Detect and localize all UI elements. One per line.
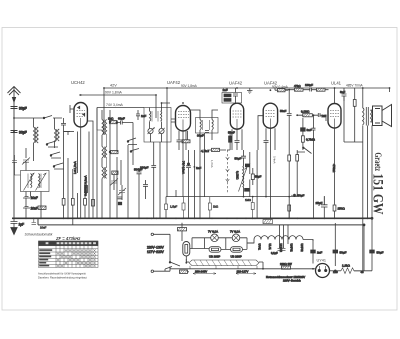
svg-text:150Ω: 150Ω bbox=[338, 207, 346, 211]
wire osc grid row bbox=[97, 108, 102, 131]
resistor 1M AVC bbox=[38, 206, 46, 209]
resistor 1M dark bbox=[229, 136, 232, 142]
coil L3 inside box bbox=[31, 174, 32, 188]
switch S1a bbox=[44, 116, 62, 119]
switch S1d bbox=[53, 163, 64, 169]
svg-text:8nF: 8nF bbox=[340, 90, 345, 94]
capacitor osc lower bbox=[118, 197, 123, 199]
node HT drop at x167 bbox=[166, 88, 168, 197]
coil IF1b bbox=[161, 111, 162, 121]
svg-text:30pF: 30pF bbox=[19, 107, 27, 111]
coil IF2a bbox=[200, 120, 201, 130]
trimmer IF1a bbox=[148, 128, 153, 133]
svg-text:UAF42: UAF42 bbox=[289, 244, 293, 253]
wire grid to tube bbox=[64, 131, 75, 133]
svg-text:50µF: 50µF bbox=[340, 250, 347, 254]
resistor 0,5M grid UL41 bbox=[302, 136, 305, 142]
svg-text:UCH42: UCH42 bbox=[279, 244, 283, 253]
mains range line bbox=[170, 267, 263, 269]
capacitor 1uF AVC bus bbox=[11, 218, 25, 234]
svg-text:47kΩ: 47kΩ bbox=[294, 84, 301, 88]
arrow variable core left bbox=[24, 173, 35, 190]
wire L1 bottom to gang bbox=[34, 141, 55, 161]
svg-text:7V 0,1A: 7V 0,1A bbox=[230, 230, 240, 234]
coil L5 oscillator bbox=[102, 120, 104, 135]
capacitor 50pF tube3 bbox=[235, 141, 240, 151]
svg-text:30pF: 30pF bbox=[197, 134, 204, 138]
capacitor 50pF grid bbox=[61, 118, 66, 147]
svg-text:10nF: 10nF bbox=[40, 226, 47, 230]
svg-text:0,1MΩ: 0,1MΩ bbox=[236, 171, 240, 179]
wire osc verticals bbox=[110, 110, 117, 218]
svg-text:220V~Bereich: 220V~Bereich bbox=[283, 279, 301, 283]
fuse resistor 1 bbox=[209, 247, 221, 253]
wire chassis bus lower bbox=[38, 218, 364, 225]
capacitor coupling 10nF bbox=[264, 141, 269, 197]
capacitor 30pF antenna top bbox=[11, 107, 27, 111]
wire dropper taps bbox=[186, 262, 263, 269]
resistor UL41 cathode bbox=[288, 205, 291, 211]
svg-text:120: 120 bbox=[333, 270, 338, 274]
tube UAF42 first bbox=[176, 106, 191, 132]
resistor AVC c bbox=[84, 199, 87, 206]
SECTION:AF bbox=[165, 83, 373, 218]
resistor 150R cathode bbox=[333, 205, 336, 211]
resistor 220R small bbox=[282, 266, 291, 269]
wire second UAF42 pins bbox=[266, 128, 275, 218]
capacitor 2nF psu bbox=[311, 250, 316, 253]
wire 74V line bbox=[97, 107, 144, 109]
capacitor 1nF at bus left bbox=[32, 218, 47, 229]
capacitor 50uF reservoir bbox=[333, 250, 338, 253]
wire af node column bbox=[250, 150, 257, 218]
svg-text:74V 3,4mA: 74V 3,4mA bbox=[106, 103, 124, 107]
dial lamp 2 bbox=[232, 234, 240, 242]
capacitor 8nF coupling bbox=[301, 128, 306, 131]
svg-text:1,2kΩ: 1,2kΩ bbox=[342, 264, 351, 268]
capacitor padding left bbox=[12, 155, 17, 170]
wire frontend verticals to bus bbox=[63, 147, 65, 218]
resistor 47k osc bbox=[111, 151, 119, 154]
svg-text:1nF: 1nF bbox=[223, 88, 228, 92]
wire mains verticals bbox=[169, 234, 171, 271]
junction dot g1 bbox=[294, 194, 296, 196]
svg-text:10nF: 10nF bbox=[31, 207, 38, 211]
svg-text:Daneben: Raumladeverbindung ei: Daneben: Raumladeverbindung eingebaut bbox=[38, 275, 87, 279]
svg-text:0,4mA: 0,4mA bbox=[273, 156, 277, 164]
wiper arrow volume bbox=[239, 167, 247, 191]
wire heater taps from bus bbox=[271, 225, 288, 255]
coil L6 oscillator bbox=[102, 147, 104, 158]
capacitor 500pF bbox=[137, 168, 142, 178]
svg-text:ZF = 473kHz: ZF = 473kHz bbox=[55, 236, 81, 241]
svg-text:30pF: 30pF bbox=[19, 131, 27, 135]
arrow variable core right bbox=[36, 173, 47, 190]
svg-text:1kΩ: 1kΩ bbox=[213, 205, 218, 209]
box IF transformer 1 bbox=[144, 108, 171, 143]
capacitor 10nF lower bbox=[23, 201, 30, 218]
svg-text:2nF: 2nF bbox=[317, 250, 322, 254]
switch S2b bbox=[130, 149, 139, 152]
loudspeaker bbox=[373, 105, 392, 127]
svg-text:68pF: 68pF bbox=[118, 117, 125, 121]
dial lamp 1 bbox=[211, 234, 219, 242]
switch mains bbox=[165, 262, 180, 269]
svg-text:110-127V: 110-127V bbox=[237, 269, 249, 273]
switch S1b mid bbox=[46, 141, 58, 147]
coil IF2b bbox=[212, 120, 213, 130]
resistor 47k coupling b bbox=[317, 88, 326, 91]
heater chain coil bbox=[247, 236, 313, 243]
svg-text:UB 200P: UB 200P bbox=[209, 254, 220, 258]
wire speaker down legs bbox=[368, 126, 373, 219]
capacitor 100pF tone bbox=[312, 120, 316, 218]
svg-text:1nF: 1nF bbox=[196, 166, 201, 170]
svg-text:74V 4,8mA: 74V 4,8mA bbox=[182, 161, 186, 174]
resistor smoothing zigzag bbox=[341, 268, 360, 274]
svg-text:UAF42: UAF42 bbox=[300, 244, 304, 253]
svg-text:7V 0,1A: 7V 0,1A bbox=[208, 230, 218, 234]
node junction dots on chassis bus bbox=[13, 217, 368, 219]
wire L1 top bbox=[34, 118, 55, 129]
potentiometer volume 0,1M bbox=[243, 160, 245, 167]
svg-text:42V: 42V bbox=[110, 84, 117, 88]
wire IF2 connections bbox=[191, 110, 219, 218]
tube UAF42 first cathode wires bbox=[171, 122, 188, 197]
fuse resistor 2 bbox=[231, 247, 243, 253]
svg-text:UAF42: UAF42 bbox=[229, 81, 243, 86]
trimmer IF1b bbox=[159, 128, 164, 133]
svg-text:UY41: UY41 bbox=[317, 259, 327, 263]
resistor 43R bbox=[180, 270, 188, 273]
wire UY41 cathode right bbox=[330, 270, 342, 272]
arrows voltage range bbox=[193, 273, 216, 275]
resistor 4,7k bbox=[212, 148, 220, 151]
wire anode UL41 top bbox=[334, 88, 336, 104]
resistor osc grid leak bbox=[85, 186, 88, 193]
wire antenna band switch row bbox=[14, 117, 44, 119]
box IF transformer 2 bbox=[196, 118, 219, 134]
svg-text:90V 1,8mA: 90V 1,8mA bbox=[105, 91, 123, 95]
svg-text:1MΩ: 1MΩ bbox=[245, 198, 251, 202]
svg-text:1,5µF: 1,5µF bbox=[170, 205, 177, 209]
svg-text:50pF: 50pF bbox=[228, 131, 235, 135]
svg-text:220Ω 2W: 220Ω 2W bbox=[280, 262, 292, 266]
resistor 2,2k tone anode bbox=[353, 100, 356, 107]
coil L1 aerial bbox=[34, 127, 36, 143]
svg-text:50µF: 50µF bbox=[377, 250, 384, 254]
capacitor 50uF smoothing bbox=[370, 250, 375, 253]
svg-text:0,7MΩ: 0,7MΩ bbox=[306, 138, 316, 142]
electrolytic 25uF bbox=[321, 196, 328, 218]
wire UCH42 cathode down bbox=[80, 127, 82, 218]
svg-text:Anschlussdrehzahl für UKW-Vors: Anschlussdrehzahl für UKW-Vorsatzgerät bbox=[38, 272, 86, 276]
capacitor 1nF osc top bbox=[136, 110, 140, 120]
node junction dots rails bbox=[13, 87, 390, 270]
wire IF1 links bbox=[150, 108, 162, 143]
wire coupling row bbox=[285, 90, 329, 113]
resistor group above tube3 bbox=[222, 93, 242, 104]
svg-text:50pF: 50pF bbox=[255, 175, 262, 179]
wire to smoothing cap bbox=[354, 218, 372, 270]
svg-text:1nF: 1nF bbox=[141, 114, 146, 118]
SECTION:OSC bbox=[97, 108, 148, 219]
coil L7 oscillator bbox=[102, 167, 104, 178]
svg-text:25µF: 25µF bbox=[316, 201, 323, 205]
svg-text:127V~220V: 127V~220V bbox=[147, 250, 165, 254]
capacitor 10nF left bbox=[23, 197, 30, 202]
capacitor AF low dark bbox=[245, 188, 249, 191]
svg-text:1kΩ: 1kΩ bbox=[108, 117, 114, 121]
link dashed volume control bbox=[227, 150, 229, 194]
wire triode section verticals bbox=[89, 108, 97, 219]
resistor 1,5k AGC bbox=[170, 197, 254, 219]
capacitor 50nF AVC bbox=[287, 113, 292, 140]
tube UAF42 third bbox=[263, 103, 277, 128]
wire box to bus bbox=[26, 148, 41, 218]
resistor 1k osc bbox=[110, 121, 118, 124]
wire lamp network bbox=[190, 238, 254, 250]
tube UAF42 second bbox=[230, 103, 243, 129]
trimmer small cluster bbox=[110, 179, 118, 186]
resistor 47k coupling bbox=[295, 88, 304, 91]
svg-text:50pF: 50pF bbox=[298, 194, 305, 198]
coil L4 inside box bbox=[39, 174, 40, 188]
fuse box on bus bbox=[178, 228, 187, 231]
svg-text:0,1MΩ: 0,1MΩ bbox=[301, 110, 309, 114]
tube UL41 bbox=[328, 104, 341, 129]
svg-text:0,1µF: 0,1µF bbox=[271, 251, 278, 255]
resistor AF right bbox=[251, 174, 254, 180]
resistor 0,1M det out bbox=[303, 114, 313, 117]
svg-text:100pF: 100pF bbox=[140, 166, 149, 170]
wire heater to UY41 bbox=[312, 240, 314, 242]
capacitor cathode bbox=[177, 140, 182, 150]
node HT drop at x104 bbox=[103, 88, 105, 135]
coil L2 bbox=[55, 129, 57, 141]
box tuning coils bbox=[21, 171, 50, 192]
svg-text:Schwundautomatik: Schwundautomatik bbox=[25, 233, 53, 237]
wire verticals under IF1 bbox=[154, 142, 160, 218]
resistor 1k osc lower bbox=[112, 171, 118, 174]
svg-text:UB 200P: UB 200P bbox=[231, 254, 242, 258]
wire screen rail 90V bbox=[79, 95, 156, 118]
wire UCH42 right pin bbox=[87, 121, 93, 150]
transformer output bbox=[363, 88, 373, 271]
svg-text:Lst.1,7mA: Lst.1,7mA bbox=[73, 161, 77, 174]
svg-text:90V 1,8mA: 90V 1,8mA bbox=[181, 84, 198, 88]
wire UCH42 triode grid bbox=[70, 105, 74, 113]
SECTION:FRONTEND bbox=[12, 105, 97, 225]
tube UCH42 bbox=[74, 103, 87, 128]
svg-text:10nF: 10nF bbox=[31, 196, 38, 200]
trimmer cap left bbox=[22, 158, 30, 165]
svg-text:1µF: 1µF bbox=[19, 223, 25, 227]
resistor AVC a bbox=[62, 199, 65, 206]
SECTION:POWER bbox=[147, 217, 384, 282]
SECTION:IF bbox=[140, 88, 242, 218]
wire det row bbox=[297, 115, 326, 121]
svg-text:UCH42: UCH42 bbox=[71, 80, 85, 85]
resistor 0,3M bbox=[182, 140, 190, 143]
wire cathode feedback line bbox=[166, 197, 324, 205]
wire HT rail 485V bbox=[104, 88, 390, 92]
wire bottom right riser bbox=[371, 217, 373, 219]
capacitor 30pF det bbox=[205, 131, 209, 133]
capacitor 1nF det bbox=[318, 113, 320, 117]
switch S1c bbox=[50, 152, 61, 158]
table band switch chart bbox=[39, 241, 99, 268]
capacitor padder bbox=[143, 180, 148, 190]
wire grid cap 1nF bbox=[186, 150, 194, 218]
capacitor 100pF coupling bbox=[310, 88, 312, 92]
svg-text:100pF: 100pF bbox=[305, 83, 313, 87]
resistor anode load bbox=[278, 89, 286, 92]
ground arrow bbox=[11, 228, 17, 235]
svg-text:200-240V: 200-240V bbox=[195, 269, 207, 273]
capacitor 8nF anode bbox=[342, 88, 347, 101]
svg-text:UAF42: UAF42 bbox=[167, 80, 181, 85]
switch tone bbox=[297, 148, 312, 154]
ground small at detector bbox=[247, 91, 253, 94]
svg-text:8nF: 8nF bbox=[307, 128, 312, 132]
wire chassis bus upper bbox=[12, 217, 372, 219]
svg-text:UY41: UY41 bbox=[258, 244, 262, 251]
mains lead upper bbox=[154, 234, 171, 271]
wire IF1 out to UAF42 bbox=[162, 103, 176, 119]
resistor heater series 47R between buses bbox=[263, 220, 273, 224]
switch S2a bbox=[126, 123, 137, 145]
svg-text:UL41: UL41 bbox=[268, 244, 272, 251]
svg-text:1,7mA: 1,7mA bbox=[210, 160, 214, 168]
capacitor 68pF osc bbox=[117, 121, 126, 125]
capacitor 30pF antenna lower bbox=[11, 131, 27, 135]
svg-text:50pF: 50pF bbox=[235, 157, 242, 161]
resistor osc cathode bbox=[92, 200, 95, 207]
dropper resistor long bbox=[189, 260, 259, 266]
capacitor dark AF bbox=[245, 164, 249, 167]
capacitor 50pF AF bbox=[241, 150, 246, 160]
svg-text:50nF: 50nF bbox=[280, 109, 287, 113]
resistor left of switch bbox=[296, 155, 299, 161]
svg-text:4,7kΩ: 4,7kΩ bbox=[201, 149, 210, 153]
svg-text:485V 70mA: 485V 70mA bbox=[346, 83, 364, 87]
antenna bbox=[8, 87, 21, 219]
resistor 0,2M bias bbox=[288, 155, 291, 161]
wire tube3 pins down bbox=[232, 129, 242, 150]
wire osc column bbox=[101, 110, 103, 190]
svg-text:Schwund 0,9mA: Schwund 0,9mA bbox=[84, 175, 88, 196]
svg-text:UL41: UL41 bbox=[331, 81, 342, 86]
svg-text:45: 45 bbox=[361, 270, 365, 274]
junction dots osc bbox=[109, 121, 111, 123]
wire UL41 grid leak bbox=[334, 128, 336, 205]
wire grid stopper second UAF bbox=[258, 116, 263, 150]
resistor AVC b bbox=[71, 199, 74, 206]
capacitor 100pF bbox=[151, 166, 156, 168]
wire line to rectifier bbox=[263, 268, 316, 270]
svg-text:470kΩ: 470kΩ bbox=[332, 164, 336, 172]
barretter urdox bbox=[183, 242, 190, 257]
svg-text:Graetz: Graetz bbox=[372, 153, 382, 172]
rectifier tube UY41 bbox=[316, 264, 330, 278]
coil IF1a bbox=[150, 111, 151, 121]
